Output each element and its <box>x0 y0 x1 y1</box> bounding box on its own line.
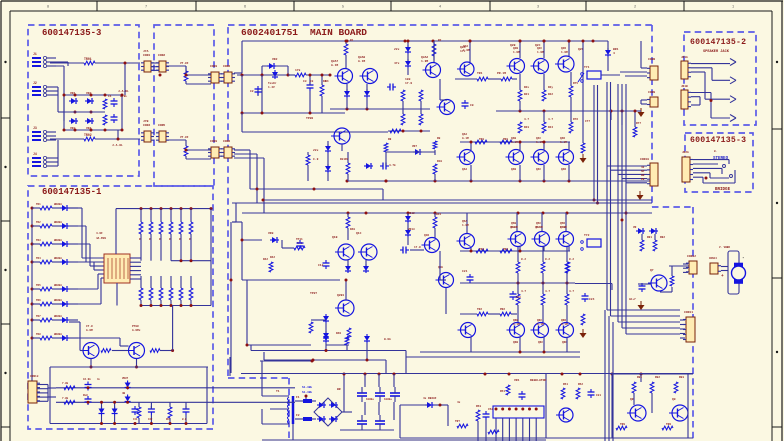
svg-text:WD80A: WD80A <box>54 221 62 224</box>
svg-text:Q5B: Q5B <box>511 222 516 225</box>
svg-text:C1: C1 <box>108 95 112 98</box>
svg-text:TR4: TR4 <box>479 248 484 251</box>
svg-text:R48: R48 <box>336 332 341 335</box>
svg-text:7.8k: 7.8k <box>62 381 69 385</box>
svg-text:VD9: VD9 <box>268 232 274 235</box>
svg-text:VD7: VD7 <box>412 145 417 148</box>
svg-text:Q1C: Q1C <box>356 232 362 235</box>
svg-text:J7B: J7B <box>143 120 149 123</box>
svg-text:CON8: CON8 <box>648 58 655 61</box>
svg-text:R42: R42 <box>270 256 275 259</box>
svg-text:A.1M: A.1M <box>513 323 520 326</box>
svg-text:R2x: R2x <box>524 86 529 89</box>
svg-text:R44: R44 <box>436 213 441 216</box>
svg-text:R23: R23 <box>524 126 529 129</box>
svg-text:J4: J4 <box>33 152 37 156</box>
svg-text:TR9: TR9 <box>620 423 625 426</box>
svg-text:17.8: 17.8 <box>414 246 421 249</box>
svg-text:J1: J1 <box>33 52 37 56</box>
svg-text:A.1M: A.1M <box>561 323 568 326</box>
svg-text:8.2: 8.2 <box>545 258 550 261</box>
svg-text:WD80A: WD80A <box>54 257 62 260</box>
svg-text:CON6: CON6 <box>223 65 230 68</box>
svg-text:R1: R1 <box>350 39 354 42</box>
svg-text:SPEAKER JACK: SPEAKER JACK <box>703 50 730 54</box>
svg-text:TR3: TR3 <box>479 138 484 141</box>
svg-text:Q4D: Q4D <box>561 168 566 171</box>
svg-text:Q6D: Q6D <box>561 319 566 322</box>
svg-text:1.8M: 1.8M <box>511 226 518 229</box>
svg-text:C3: C3 <box>303 80 307 83</box>
svg-text:PR.1M: PR.1M <box>497 72 506 75</box>
svg-text:TR1: TR1 <box>477 72 483 75</box>
svg-text:GN: GN <box>641 174 645 177</box>
svg-text:VT.8F: VT.8F <box>180 136 189 139</box>
svg-text:17k: 17k <box>295 68 301 72</box>
svg-text:Q6B: Q6B <box>513 319 518 322</box>
svg-text:J2: J2 <box>33 81 37 85</box>
svg-text:R40: R40 <box>350 228 355 231</box>
svg-text:V. VBBR: V. VBBR <box>719 246 730 249</box>
svg-text:CON13: CON13 <box>30 375 39 378</box>
svg-text:600147135-2: 600147135-2 <box>690 38 746 47</box>
svg-text:CT.8: CT.8 <box>86 325 93 328</box>
svg-text:J3: J3 <box>33 126 37 130</box>
svg-text:R9: R9 <box>437 137 441 140</box>
svg-text:Q2A: Q2A <box>463 45 468 48</box>
svg-text:22x: 22x <box>394 48 400 51</box>
svg-text:TR01: TR01 <box>84 57 92 61</box>
svg-text:W.: W. <box>714 150 717 153</box>
svg-text:8.2: 8.2 <box>569 258 574 261</box>
svg-text:R91: R91 <box>637 376 642 379</box>
svg-text:TR?: TR? <box>455 420 460 423</box>
svg-text:CON9: CON9 <box>648 91 655 94</box>
svg-text:C52: C52 <box>488 408 493 411</box>
svg-text:Q3A2: Q3A2 <box>421 56 428 59</box>
svg-text:TR2: TR2 <box>36 221 41 224</box>
svg-text:C41: C41 <box>133 418 138 421</box>
svg-text:R8: R8 <box>388 138 392 141</box>
svg-text:R22: R22 <box>548 93 553 96</box>
svg-text:R77: R77 <box>636 122 641 125</box>
svg-text:A.1M: A.1M <box>537 323 544 326</box>
svg-text:CON11: CON11 <box>684 311 693 314</box>
svg-text:PR3: PR3 <box>503 138 508 141</box>
svg-text:17.8: 17.8 <box>405 82 412 85</box>
svg-text:STEREO: STEREO <box>713 157 729 161</box>
svg-text:R52: R52 <box>578 383 583 386</box>
svg-text:CON4: CON4 <box>143 124 150 127</box>
svg-text:CON3: CON3 <box>210 140 217 143</box>
svg-text:TR8: TR8 <box>666 423 671 426</box>
svg-text:TP08: TP08 <box>306 117 313 120</box>
svg-text:TP11: TP11 <box>296 238 303 241</box>
svg-text:Q1D: Q1D <box>424 234 429 237</box>
svg-text:R93: R93 <box>679 376 684 379</box>
svg-text:VT.8F: VT.8F <box>180 62 189 65</box>
svg-text:CON2: CON2 <box>158 54 165 57</box>
svg-text:4x RB40F: 4x RB40F <box>423 397 437 400</box>
svg-text:2: 2 <box>634 6 636 10</box>
svg-text:4: 4 <box>439 6 441 10</box>
svg-text:TR4: TR4 <box>36 257 41 260</box>
svg-text:1.8M: 1.8M <box>421 60 428 63</box>
svg-text:S1-40k: S1-40k <box>302 385 312 389</box>
svg-text:R51: R51 <box>563 383 568 386</box>
svg-text:PR2: PR2 <box>500 308 505 311</box>
svg-text:WD80A: WD80A <box>54 333 62 336</box>
svg-text:C77: C77 <box>585 120 590 123</box>
svg-text:R75: R75 <box>573 82 578 85</box>
svg-text:R92: R92 <box>655 376 660 379</box>
svg-text:4.7: 4.7 <box>569 290 574 293</box>
svg-text:4.7k: 4.7k <box>389 163 396 167</box>
svg-text:MAIN BOARD: MAIN BOARD <box>310 27 367 38</box>
svg-text:CON3: CON3 <box>210 65 217 68</box>
svg-text:CON14: CON14 <box>709 257 717 260</box>
svg-text:R4: R4 <box>323 80 327 83</box>
svg-text:PT08: PT08 <box>132 325 139 328</box>
svg-text:C9: C9 <box>470 104 474 107</box>
svg-text:Q5E: Q5E <box>438 266 443 269</box>
svg-text:A.1M: A.1M <box>511 141 518 144</box>
svg-text:J.A.8L: J.A.8L <box>118 90 129 93</box>
svg-text:C23: C23 <box>516 296 521 299</box>
svg-text:A.1M: A.1M <box>536 141 543 144</box>
svg-text:TR02: TR02 <box>84 133 92 137</box>
svg-text:4.8F: 4.8F <box>96 232 103 235</box>
svg-text:8: 8 <box>47 6 49 10</box>
svg-text:TR2: TR2 <box>477 308 482 311</box>
svg-text:VD13: VD13 <box>408 228 415 231</box>
svg-text:Q4A: Q4A <box>462 168 467 171</box>
svg-text:Q2B1: Q2B1 <box>337 294 344 297</box>
svg-text:JK2A: JK2A <box>682 151 689 154</box>
svg-text:WD80A: WD80A <box>54 299 62 302</box>
svg-text:R51: R51 <box>500 390 505 393</box>
svg-text:A.8L: A.8L <box>120 95 127 98</box>
svg-text:1000u: 1000u <box>384 398 392 401</box>
svg-text:4.7: 4.7 <box>548 118 553 121</box>
svg-text:4x: 4x <box>641 166 645 169</box>
svg-text:BR1: BR1 <box>613 48 619 51</box>
svg-text:A.1M: A.1M <box>462 137 469 140</box>
svg-text:22x: 22x <box>313 149 319 152</box>
svg-text:T1: T1 <box>276 390 280 393</box>
svg-text:CON6: CON6 <box>223 140 230 143</box>
svg-text:SP: SP <box>641 170 645 173</box>
svg-text:TR6: TR6 <box>36 299 41 302</box>
svg-text:VD87: VD87 <box>122 377 129 380</box>
svg-text:4.7: 4.7 <box>524 118 529 121</box>
svg-text:Rx8: Rx8 <box>83 394 88 397</box>
svg-text:WD80A: WD80A <box>54 239 62 242</box>
svg-text:R61: R61 <box>166 418 171 421</box>
svg-text:-: - <box>742 256 745 261</box>
svg-text:8.2: 8.2 <box>521 258 526 261</box>
svg-text:C21: C21 <box>462 270 468 273</box>
svg-text:TY1: TY1 <box>584 66 590 69</box>
svg-text:1.4V: 1.4V <box>268 86 275 89</box>
svg-text:Q4C: Q4C <box>536 168 541 171</box>
svg-text:CON1: CON1 <box>143 54 150 57</box>
svg-text:TexOr: TexOr <box>268 82 277 85</box>
svg-text:AC+7: AC+7 <box>629 298 636 301</box>
svg-text:5: 5 <box>342 6 344 10</box>
svg-text:Q4C: Q4C <box>536 137 541 140</box>
svg-text:Q3A8: Q3A8 <box>358 56 365 59</box>
svg-text:C2.8k: C2.8k <box>83 377 91 381</box>
svg-text:TP0?: TP0? <box>310 292 317 295</box>
svg-text:VD2: VD2 <box>272 58 278 61</box>
svg-text:A.8M: A.8M <box>86 329 93 332</box>
svg-text:1.8M: 1.8M <box>561 51 568 54</box>
svg-text:TR8: TR8 <box>36 333 41 336</box>
svg-text:TR3: TR3 <box>36 239 41 242</box>
svg-text:J.A.8L: J.A.8L <box>112 144 123 147</box>
svg-text:W.8A: W.8A <box>384 338 391 341</box>
svg-text:A.8Mx: A.8Mx <box>132 329 141 332</box>
svg-text:Q6B: Q6B <box>513 341 518 344</box>
svg-text:JK1B: JK1B <box>681 85 688 88</box>
svg-text:WD80A: WD80A <box>54 203 62 206</box>
svg-text:R2y: R2y <box>548 86 553 89</box>
svg-text:Q2D: Q2D <box>561 47 566 50</box>
svg-text:Q3A7: Q3A7 <box>331 60 338 63</box>
svg-text:Q9: Q9 <box>672 398 676 401</box>
svg-text:C12: C12 <box>318 264 324 267</box>
svg-text:F1: F1 <box>296 396 300 399</box>
svg-text:600147135-3: 600147135-3 <box>690 136 746 145</box>
svg-text:PR4: PR4 <box>503 248 508 251</box>
svg-text:VR1: VR1 <box>514 379 520 382</box>
svg-text:JK1A: JK1A <box>681 56 688 59</box>
svg-text:R24: R24 <box>548 126 553 129</box>
svg-text:PW: PW <box>641 178 645 181</box>
svg-text:R42: R42 <box>263 258 268 261</box>
svg-text:Q4A: Q4A <box>462 133 467 136</box>
svg-text:1.8M: 1.8M <box>463 49 470 52</box>
svg-text:100: 100 <box>405 78 411 81</box>
svg-text:C2: C2 <box>250 90 254 93</box>
svg-text:A.1M: A.1M <box>358 60 365 63</box>
svg-text:Q4B: Q4B <box>511 168 516 171</box>
svg-text:F2: F2 <box>296 414 300 417</box>
svg-text:4x: 4x <box>457 401 461 404</box>
svg-text:6: 6 <box>244 6 246 10</box>
svg-text:600147135-1: 600147135-1 <box>42 187 102 197</box>
svg-text:CON5: CON5 <box>158 124 165 127</box>
svg-text:7: 7 <box>145 6 147 10</box>
svg-text:BR: BR <box>337 388 341 391</box>
svg-text:R82: R82 <box>660 236 665 239</box>
svg-text:Q6C: Q6C <box>537 319 542 322</box>
svg-text:R76: R76 <box>573 118 578 121</box>
svg-text:Q7: Q7 <box>650 269 654 272</box>
svg-text:TR1: TR1 <box>36 203 41 206</box>
svg-text:C3: C3 <box>310 80 314 83</box>
svg-text:1000u: 1000u <box>366 398 374 401</box>
svg-text:Q6C: Q6C <box>538 341 543 344</box>
svg-text:4B: 4B <box>122 392 126 395</box>
svg-text:S1-40k: S1-40k <box>302 390 312 394</box>
svg-text:+: + <box>721 274 724 279</box>
svg-text:600147135-3: 600147135-3 <box>42 28 101 38</box>
svg-text:Q2C: Q2C <box>537 47 542 50</box>
svg-text:Q5D: Q5D <box>560 222 565 225</box>
svg-text:WD80A: WD80A <box>54 284 62 287</box>
svg-text:4.7: 4.7 <box>545 290 550 293</box>
svg-text:W.8: W.8 <box>182 418 187 421</box>
svg-text:R21: R21 <box>524 93 529 96</box>
svg-text:VD12: VD12 <box>408 212 415 215</box>
svg-text:C24: C24 <box>589 298 595 301</box>
svg-text:CON10: CON10 <box>640 158 649 161</box>
svg-text:R2: R2 <box>438 39 442 42</box>
svg-text:CON12: CON12 <box>687 255 696 258</box>
svg-text:4.7: 4.7 <box>521 290 526 293</box>
svg-text:TY2: TY2 <box>584 234 590 237</box>
svg-text:R10: R10 <box>437 160 442 163</box>
svg-text:R7: R7 <box>345 158 349 161</box>
svg-text:A.1M: A.1M <box>560 141 567 144</box>
svg-text:Q5A: Q5A <box>462 220 467 223</box>
svg-text:47x: 47x <box>394 62 400 65</box>
svg-text:C31: C31 <box>596 394 601 397</box>
svg-text:6002401751: 6002401751 <box>241 27 298 38</box>
svg-text:Q5C: Q5C <box>536 222 541 225</box>
svg-text:1.8M: 1.8M <box>462 224 469 227</box>
svg-text:Q4D: Q4D <box>560 137 565 140</box>
svg-text:C42: C42 <box>148 418 153 421</box>
svg-text:Q2B: Q2B <box>513 47 518 50</box>
svg-text:J7A: J7A <box>143 50 149 53</box>
svg-text:REGULATOR: REGULATOR <box>530 379 546 382</box>
svg-text:R81: R81 <box>647 236 652 239</box>
svg-text:3: 3 <box>537 6 539 10</box>
svg-text:WD80A: WD80A <box>54 315 62 318</box>
svg-text:Q8: Q8 <box>630 398 634 401</box>
svg-text:1.8M: 1.8M <box>537 51 544 54</box>
svg-text:A.1M: A.1M <box>331 64 338 67</box>
svg-text:Q4B: Q4B <box>511 137 516 140</box>
svg-text:1.8M: 1.8M <box>536 226 543 229</box>
svg-text:VD: VD <box>633 226 637 229</box>
svg-text:1.8M: 1.8M <box>513 51 520 54</box>
svg-text:1.8M: 1.8M <box>560 226 567 229</box>
svg-text:C.8: C.8 <box>313 158 319 161</box>
svg-text:Q1B: Q1B <box>332 236 338 239</box>
svg-text:4: 4 <box>613 52 615 55</box>
svg-text:TR5: TR5 <box>36 284 41 287</box>
svg-text:TR7: TR7 <box>36 315 41 318</box>
svg-text:7.8k: 7.8k <box>62 396 69 400</box>
svg-text:R53: R53 <box>476 405 481 408</box>
svg-text:BRIDGE: BRIDGE <box>715 188 731 192</box>
svg-text:1: 1 <box>732 6 734 10</box>
svg-text:4A.M20: 4A.M20 <box>96 237 106 240</box>
